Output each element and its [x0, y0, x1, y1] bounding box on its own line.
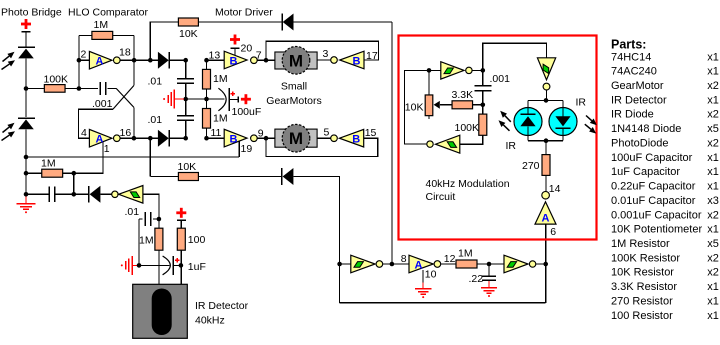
svg-text:.01: .01 [148, 114, 163, 126]
svg-text:19: 19 [241, 143, 253, 155]
wire A to 1M [441, 263, 456, 265]
svg-text:100K Resistor: 100K Resistor [611, 252, 680, 264]
svg-text:x1: x1 [707, 310, 719, 322]
inverter U3 osc bottom [427, 135, 460, 153]
pin 17 [366, 50, 378, 62]
pin 1 [104, 143, 110, 155]
resistor 10K lower [178, 173, 198, 181]
resistor 1M mid bottom [203, 109, 211, 129]
svg-text:4: 4 [81, 127, 87, 139]
svg-text:3: 3 [323, 48, 329, 60]
label Small GearMotors [266, 81, 321, 108]
wire pin1 stub [74, 142, 103, 173]
svg-text:100: 100 [188, 234, 206, 246]
svg-text:x1: x1 [707, 66, 719, 78]
wire osc top loop [483, 43, 547, 70]
V+ 100uF [241, 94, 251, 104]
wire cross diagonal 2 [116, 89, 134, 139]
capacitor .01 bottom [177, 116, 194, 120]
resistor 270 [542, 141, 550, 176]
diode D3 1N4148 [158, 52, 186, 69]
svg-text:x1: x1 [707, 295, 719, 307]
svg-text:0.001uF Capacitor: 0.001uF Capacitor [611, 209, 702, 221]
capacitor .001 cross [79, 82, 116, 95]
inverter U1 chain1 [351, 255, 383, 273]
label .001 cross [92, 98, 113, 110]
resistor 1M lower left [26, 169, 74, 177]
svg-text:IR: IR [506, 140, 517, 152]
svg-text:40kHz Modulation: 40kHz Modulation [426, 178, 510, 190]
inverter U1A up [535, 191, 556, 224]
svg-text:.001: .001 [92, 98, 113, 110]
svg-text:.01: .01 [148, 76, 163, 88]
label IR left [506, 140, 517, 152]
ground mid sideways [163, 90, 184, 109]
wire motor2 loop [266, 138, 378, 156]
capacitor rail [26, 187, 74, 203]
svg-text:270: 270 [522, 160, 540, 172]
wire enable row [26, 156, 239, 158]
inverter U1 chain2 [504, 255, 528, 273]
diode D7 1N4148 [89, 186, 101, 203]
svg-text:B: B [353, 56, 361, 68]
inverter U3 down [537, 58, 555, 90]
pin 19 [241, 143, 253, 155]
node chain start [337, 262, 342, 267]
svg-text:0.01uF Capacitor: 0.01uF Capacitor [611, 195, 696, 207]
svg-text:IR: IR [576, 97, 587, 109]
wire U1F input [143, 194, 159, 219]
svg-text:1M: 1M [213, 113, 228, 125]
wire osc out [472, 68, 485, 73]
svg-text:1uF: 1uF [188, 261, 206, 273]
label 1M mid bottom [213, 113, 228, 125]
potentiometer 10K [425, 70, 433, 119]
svg-text:IR Detector: IR Detector [195, 300, 249, 312]
pin 9 [258, 128, 264, 140]
svg-text:.22: .22 [469, 273, 484, 285]
wire long vertical [391, 22, 393, 264]
wire gnd to 1uF [139, 264, 170, 266]
svg-text:100uF Capacitor: 100uF Capacitor [611, 152, 693, 164]
capacitor 1uF [163, 256, 184, 275]
label 100 IR [188, 234, 206, 246]
resistor 3.3K [452, 101, 473, 109]
svg-text:x1: x1 [707, 281, 719, 293]
pin 3 [323, 48, 329, 60]
svg-text:x5: x5 [707, 123, 719, 135]
capacitor .01 IR [139, 212, 161, 226]
svg-text:x1: x1 [707, 152, 719, 164]
photodiode D1 [18, 47, 35, 58]
label 1M lower left [41, 158, 56, 170]
svg-text:5: 5 [324, 126, 330, 138]
title HLO Comparator [68, 6, 148, 18]
svg-text:1M: 1M [213, 73, 228, 85]
svg-text:1N4148 Diode: 1N4148 Diode [611, 123, 681, 135]
svg-text:15: 15 [365, 127, 377, 139]
label 10K top [179, 28, 198, 40]
wire lower10K right [293, 177, 339, 303]
motor M2 [275, 124, 317, 152]
pin 10 [425, 268, 437, 280]
wire mid node [183, 97, 224, 102]
wire lower10K mid [198, 176, 282, 178]
svg-text:1M Resistor: 1M Resistor [611, 238, 670, 250]
wire mid 1M column [206, 60, 208, 138]
light arrows D1 [2, 52, 16, 70]
pot wiper arrow [434, 101, 452, 109]
wire cap left down [138, 219, 140, 265]
svg-text:1: 1 [104, 143, 110, 155]
red box 40kHz [399, 36, 597, 240]
label 100K osc [455, 122, 480, 134]
ground photo bridge [17, 196, 36, 213]
wire U1A bottom output [120, 136, 158, 141]
wire pin6 vertical [545, 224, 547, 303]
svg-text:x1: x1 [707, 224, 719, 236]
svg-text:3.3K: 3.3K [452, 89, 474, 101]
wire osc left rail [404, 70, 440, 144]
svg-text:x1: x1 [707, 94, 719, 106]
svg-text:x1: x1 [707, 181, 719, 193]
label .22 [469, 273, 484, 285]
node osc in [427, 68, 432, 73]
pin 18 [119, 47, 131, 59]
svg-text:1M: 1M [94, 19, 109, 31]
svg-text:1M: 1M [458, 247, 473, 259]
svg-text:.001: .001 [490, 73, 511, 85]
svg-text:x2: x2 [707, 267, 719, 279]
pin 15 [365, 127, 377, 139]
wire pin10 ground stub [422, 270, 424, 288]
svg-text:20: 20 [241, 43, 253, 55]
svg-text:16: 16 [120, 127, 132, 139]
IR detector module [133, 284, 188, 338]
wire B9 out [257, 136, 275, 141]
svg-text:x1: x1 [707, 51, 719, 63]
svg-text:.01: .01 [125, 206, 140, 218]
capacitor .001 osc [474, 86, 491, 91]
svg-text:Photo Bridge: Photo Bridge [1, 6, 62, 18]
svg-text:74HC14: 74HC14 [611, 51, 651, 63]
wire pin2 [79, 59, 90, 61]
label .01 top [148, 76, 163, 88]
V+ supply photo bridge [21, 19, 31, 47]
svg-text:100uF: 100uF [232, 106, 262, 118]
svg-text:IR Detector: IR Detector [611, 94, 667, 106]
wire pin19 stub [238, 141, 240, 157]
wire 1M to inv2 [477, 262, 504, 267]
wire vertical to lower 10K [149, 138, 151, 176]
svg-text:11: 11 [211, 127, 222, 139]
label .01 IR [125, 206, 140, 218]
photodiode D2 [18, 118, 35, 129]
pin 11 [211, 127, 222, 139]
svg-text:1uF Capacitor: 1uF Capacitor [611, 166, 680, 178]
resistor 1M feedback [79, 31, 134, 60]
label .001 osc [490, 73, 511, 85]
svg-text:x3: x3 [707, 195, 719, 207]
resistor 100 IR [177, 228, 185, 284]
inverter U1 chain2 body [507, 261, 536, 267]
wire node A vertical [77, 35, 82, 90]
svg-text:x1: x1 [707, 166, 719, 178]
op-amp U1A top inverter [89, 51, 120, 69]
node rail junctions [24, 86, 29, 196]
svg-text:B: B [230, 56, 238, 68]
svg-text:IR Diode: IR Diode [611, 109, 654, 121]
pin 2 [81, 49, 87, 61]
wire lower10K left [150, 176, 178, 178]
resistor 100K [26, 85, 79, 93]
pin 13 [209, 50, 221, 62]
svg-text:1M: 1M [139, 235, 154, 247]
diode D4 1N4148 [158, 130, 186, 147]
svg-text:GearMotors: GearMotors [266, 95, 321, 107]
svg-text:A: A [96, 134, 104, 146]
label 1M feedback [94, 19, 109, 31]
wire rail below D2 [25, 129, 27, 200]
svg-text:B: B [352, 134, 360, 146]
wire motor1 right [317, 59, 331, 61]
label 1M IR [139, 235, 154, 247]
svg-text:10K: 10K [178, 161, 197, 173]
ground .22 [481, 288, 497, 298]
svg-text:100K: 100K [455, 122, 480, 134]
svg-text:17: 17 [366, 50, 378, 62]
pin 20 [241, 43, 253, 55]
wire B7 out [257, 58, 275, 63]
wire chain in [340, 263, 351, 265]
LED IR left [514, 108, 542, 136]
wire 270 to pin14 [545, 175, 547, 191]
wire to LEDs [544, 90, 549, 103]
wire chain2 out [536, 262, 548, 267]
wire D7 to bubble [100, 193, 111, 195]
svg-text:14: 14 [549, 183, 561, 195]
wire cross diagonal 1 [79, 60, 135, 138]
buffer U2B17 [331, 51, 364, 69]
pin 16 [120, 127, 132, 139]
pin 6 [550, 226, 556, 238]
wire top right [294, 21, 392, 23]
buffer U2B top [224, 51, 257, 69]
motor M1 [275, 47, 317, 75]
label 100K [44, 74, 69, 86]
diode D5 1N4148 [282, 14, 294, 31]
V+ 100 resistor [176, 208, 186, 228]
wire 100K down [460, 135, 483, 144]
label 1M mid top [213, 73, 228, 85]
wire to B7 [207, 59, 225, 61]
buffer U2B bottom [224, 129, 257, 147]
title Photo Bridge [1, 6, 62, 18]
light arrows D2 [2, 123, 16, 141]
label 1M chain [458, 247, 473, 259]
capacitor 100uF [218, 88, 238, 111]
inverter U1A 40kHz in [409, 255, 441, 273]
svg-text:HLO Comparator: HLO Comparator [68, 6, 148, 18]
svg-text:18: 18 [119, 47, 131, 59]
wire motor2 right [317, 137, 331, 139]
svg-text:12: 12 [444, 253, 456, 265]
inverter U1F IR [112, 186, 143, 204]
wire LED top [528, 100, 563, 107]
label 270 [522, 160, 540, 172]
svg-text:Parts:: Parts: [611, 38, 646, 52]
pin 12 [444, 253, 456, 265]
wire U1A output [120, 58, 158, 63]
inverter U3 osc top [441, 62, 472, 79]
op-amp U1A bottom inverter [89, 129, 120, 147]
svg-text:10K Potentiometer: 10K Potentiometer [611, 224, 702, 236]
svg-text:8: 8 [401, 253, 407, 265]
wire motor1 loop [266, 41, 379, 60]
resistor 1M IR [155, 219, 163, 284]
svg-text:Small: Small [281, 81, 307, 93]
wire 3.3K out [473, 103, 486, 108]
svg-text:M: M [289, 129, 303, 148]
pin 20 supply [230, 35, 240, 56]
svg-text:B: B [230, 134, 238, 146]
ground IR sideways [121, 256, 142, 275]
label IR Detector [195, 300, 249, 327]
capacitor .22 [482, 264, 496, 280]
svg-text:2: 2 [81, 49, 87, 61]
wire mid caps column [185, 60, 187, 138]
wire to B9 [207, 137, 225, 139]
diode D6 1N4148 [282, 168, 294, 185]
pin 8 [401, 253, 407, 265]
wire chain1-A [383, 262, 409, 267]
svg-text:x5: x5 [707, 238, 719, 250]
LED right arrows [585, 116, 597, 134]
parts list [611, 38, 719, 322]
wire chain bottom [340, 302, 546, 304]
resistor 1M mid top [203, 69, 211, 89]
wire .22 gnd stub [488, 281, 490, 287]
svg-text:3.3K Resistor: 3.3K Resistor [611, 281, 677, 293]
svg-text:A: A [542, 213, 550, 225]
svg-text:40kHz: 40kHz [195, 315, 225, 327]
svg-text:74AC240: 74AC240 [611, 66, 657, 78]
pin 4 [81, 127, 87, 139]
label 10K lower [178, 161, 197, 173]
wire rail D1-D2 [25, 58, 27, 117]
svg-text:x2: x2 [707, 80, 719, 92]
buffer U2B15 [331, 129, 364, 147]
label 40kHz Modulation Circuit [426, 178, 510, 203]
svg-text:1M: 1M [41, 158, 56, 170]
svg-text:10: 10 [425, 268, 437, 280]
LED left arrows [499, 111, 511, 131]
svg-text:x2: x2 [707, 109, 719, 121]
svg-text:Circuit: Circuit [426, 191, 456, 203]
label 10K pot [405, 102, 424, 114]
svg-text:100 Resistor: 100 Resistor [611, 310, 673, 322]
node 1M right [72, 171, 77, 197]
label 1uF [188, 261, 206, 273]
LED IR right [549, 108, 577, 136]
svg-text:GearMotor: GearMotor [611, 80, 664, 92]
wire vertical 10Ktop [149, 22, 151, 61]
title Motor Driver [215, 6, 273, 18]
ground pin10 [415, 289, 431, 299]
wire cap column [482, 70, 484, 114]
svg-text:100K: 100K [44, 74, 69, 86]
svg-text:270 Resistor: 270 Resistor [611, 295, 673, 307]
pin 7 [256, 50, 262, 62]
svg-text:10K: 10K [179, 28, 198, 40]
junctions bottom row [183, 136, 208, 141]
label IR right [576, 97, 587, 109]
resistor 100K osc [479, 114, 487, 135]
wire LED bottom [528, 136, 563, 144]
junctions top row [183, 58, 208, 63]
svg-text:x2: x2 [707, 209, 719, 221]
svg-text:x2: x2 [707, 252, 719, 264]
svg-text:10K Resistor: 10K Resistor [611, 267, 674, 279]
label .01 bottom [148, 114, 163, 126]
capacitor .01 top [177, 79, 194, 83]
label 3.3K [452, 89, 474, 101]
pin 14 [549, 183, 561, 195]
pin 5 [324, 126, 330, 138]
label 100uF [232, 106, 262, 118]
svg-text:A: A [415, 259, 423, 271]
svg-text:10K: 10K [405, 102, 424, 114]
wire top left [150, 21, 178, 23]
svg-text:x2: x2 [707, 137, 719, 149]
svg-text:6: 6 [550, 226, 556, 238]
resistor 1M chain [456, 260, 477, 268]
resistor 10K top [178, 18, 198, 26]
wire to diode D7 [74, 193, 89, 195]
svg-text:0.22uF Capacitor: 0.22uF Capacitor [611, 181, 696, 193]
svg-text:PhotoDiode: PhotoDiode [611, 137, 669, 149]
svg-text:M: M [289, 51, 303, 70]
svg-text:Motor Driver: Motor Driver [215, 6, 273, 18]
wire top mid [198, 21, 281, 23]
svg-text:A: A [96, 56, 104, 68]
